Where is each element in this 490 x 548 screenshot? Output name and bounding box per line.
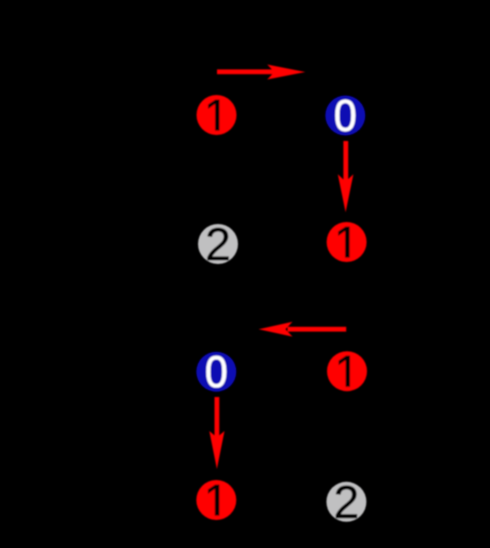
node C: gray state circle, value 2 (mid-left): [198, 224, 238, 264]
arrow: down from node B toward node D: [338, 141, 354, 212]
node D: red state circle, value 1 (mid-right): [327, 222, 367, 262]
arrow: top transfer (points right): [217, 65, 305, 80]
arrow: middle transfer (points left): [259, 322, 347, 337]
node A: red state circle, value 1 (top-left): [197, 95, 237, 135]
node H: gray state circle, value 2 (bottom-right): [326, 482, 366, 522]
node B: blue state circle, value 0 (top-right): [325, 96, 365, 136]
node E: blue state circle, value 0 (lower-left): [196, 352, 236, 392]
node G: red state circle, value 1 (bottom-left): [196, 480, 236, 520]
node F: red state circle, value 1 (lower-right): [327, 351, 367, 391]
arrow: down from node E toward node G: [209, 397, 224, 469]
